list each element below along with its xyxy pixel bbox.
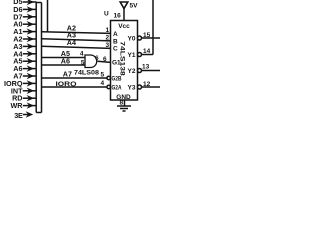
svg-text:2: 2 <box>106 34 110 41</box>
svg-text:6: 6 <box>103 56 107 63</box>
svg-text:IORQ: IORQ <box>56 81 77 88</box>
svg-text:Y1: Y1 <box>128 52 136 59</box>
svg-text:13: 13 <box>142 64 150 71</box>
svg-text:G2B: G2B <box>112 76 122 83</box>
svg-text:5: 5 <box>81 60 85 67</box>
svg-text:15: 15 <box>143 32 151 39</box>
svg-text:G2A: G2A <box>112 85 122 92</box>
svg-text:5: 5 <box>101 72 105 79</box>
svg-text:Y0: Y0 <box>128 36 136 43</box>
svg-text:Vcc: Vcc <box>118 23 130 30</box>
svg-text:5V: 5V <box>130 3 139 10</box>
svg-text:U: U <box>104 11 109 18</box>
svg-text:4: 4 <box>80 51 84 58</box>
svg-text:1: 1 <box>106 27 110 34</box>
svg-text:14: 14 <box>143 48 151 55</box>
svg-text:A4: A4 <box>67 38 76 47</box>
svg-text:74LS08: 74LS08 <box>74 70 99 77</box>
svg-text:16: 16 <box>114 13 122 20</box>
svg-text:3E: 3E <box>14 111 23 120</box>
svg-text:WR: WR <box>11 101 24 110</box>
svg-text:A: A <box>113 31 118 38</box>
svg-text:C: C <box>113 46 118 53</box>
svg-text:4: 4 <box>101 80 105 87</box>
svg-text:Y2: Y2 <box>128 68 136 75</box>
svg-text:74LS138: 74LS138 <box>118 41 125 76</box>
svg-text:3: 3 <box>106 42 110 49</box>
svg-text:6: 6 <box>95 55 99 62</box>
svg-text:A7: A7 <box>63 70 72 79</box>
svg-text:A6: A6 <box>61 57 70 66</box>
svg-text:Y3: Y3 <box>128 85 136 92</box>
svg-text:GND: GND <box>116 94 131 101</box>
svg-text:B: B <box>113 38 118 45</box>
svg-text:12: 12 <box>143 81 151 88</box>
